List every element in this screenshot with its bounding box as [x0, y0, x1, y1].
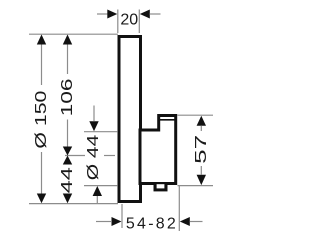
body axis line — [65, 155, 85, 157]
dimension 57 (right) — [193, 116, 210, 185]
dimension 44 (column 2 lower) — [59, 156, 76, 204]
svg-text:Ø 44: Ø 44 — [85, 135, 102, 181]
wall plate (side view) — [119, 37, 141, 202]
dimension D150 (column 1) — [33, 35, 50, 204]
valve body with top step (side profile) — [140, 116, 176, 184]
step inner line — [159, 119, 176, 121]
body bottom extension (left) — [84, 185, 118, 187]
body top extension (left) — [84, 131, 118, 133]
dimension D44 (column 3, body diameter) — [85, 106, 102, 204]
svg-text:44: 44 — [59, 167, 76, 193]
bottom tab — [154, 183, 168, 192]
plate bottom extension — [29, 203, 118, 205]
plate top extension — [29, 33, 118, 35]
svg-text:54-82: 54-82 — [126, 215, 178, 232]
right extension lines (body top / bottom) — [178, 114, 214, 116]
dimension 20 (plate thickness, top) — [97, 10, 161, 34]
dimension 106 (column 2 upper) — [59, 35, 76, 156]
body axis line (right segment) — [104, 155, 115, 157]
dimension 54-82 (bottom) — [96, 186, 203, 232]
svg-text:57: 57 — [193, 135, 210, 164]
svg-text:Ø 150: Ø 150 — [33, 90, 50, 148]
svg-text:106: 106 — [59, 78, 76, 116]
svg-text:20: 20 — [120, 12, 138, 29]
